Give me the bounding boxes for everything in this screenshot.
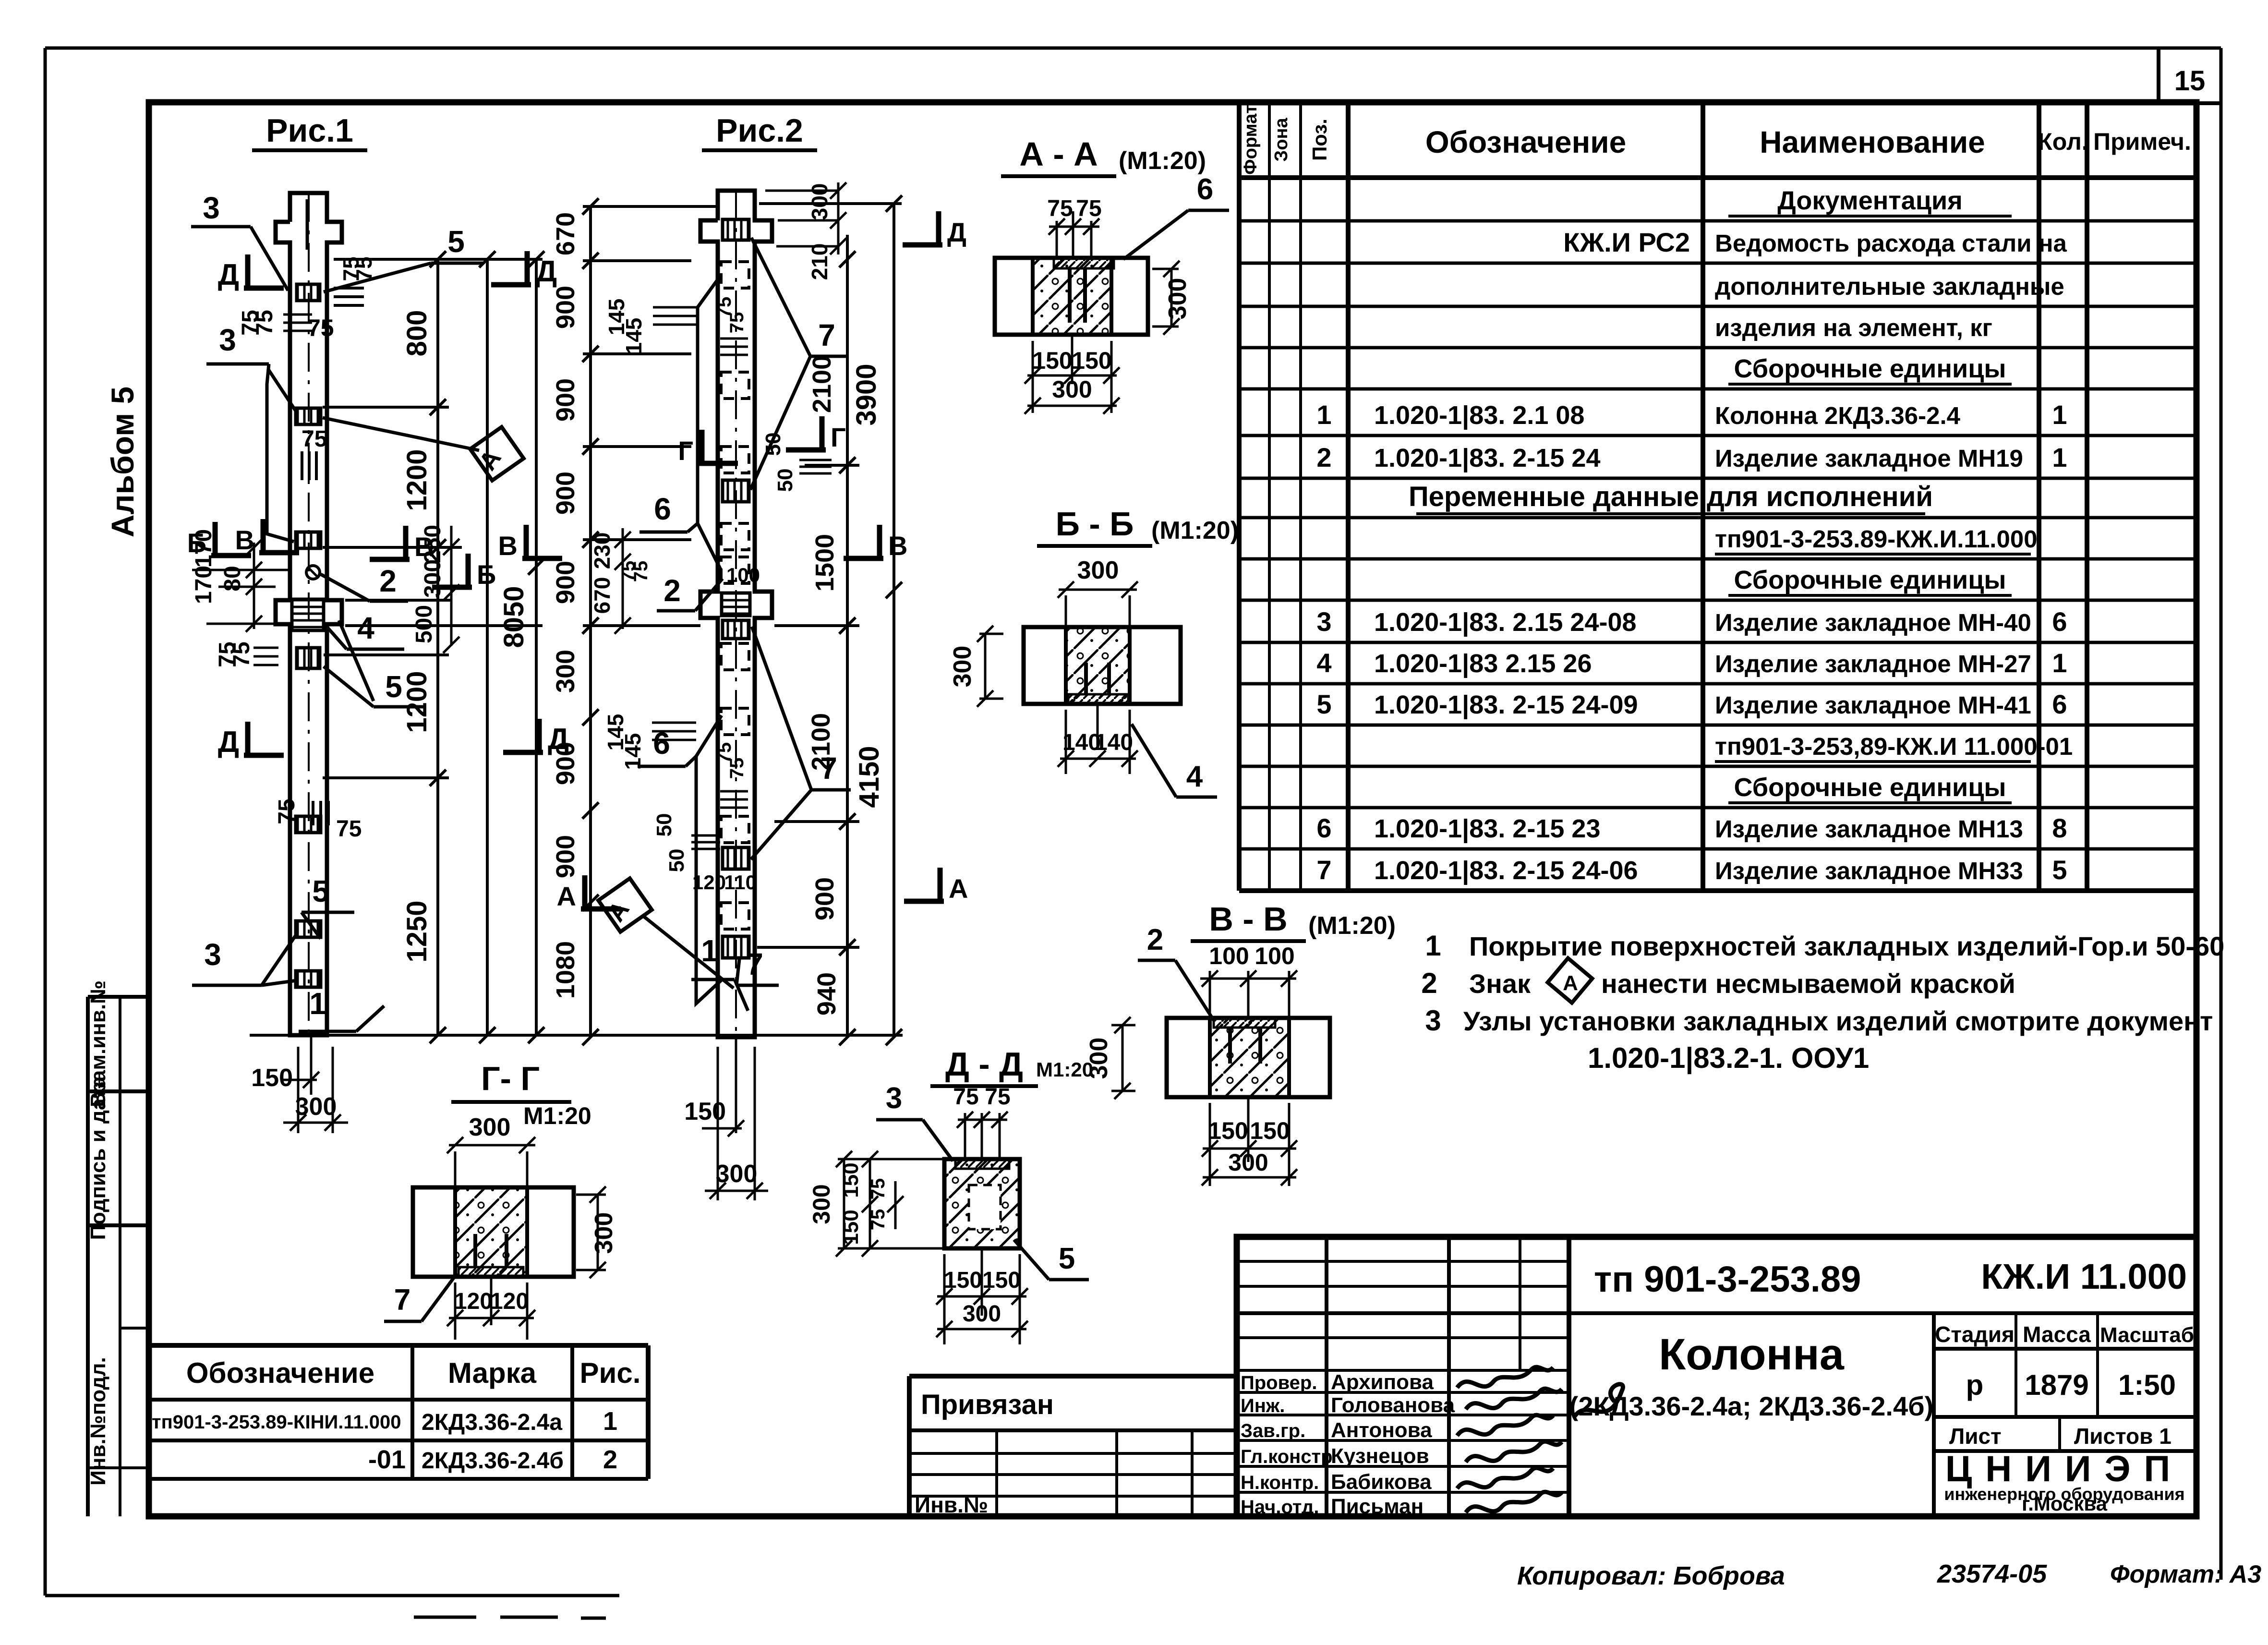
section mark A right [938,868,943,901]
svg-text:75: 75 [1076,196,1101,221]
svg-text:1500: 1500 [810,534,839,592]
svg-text:4150: 4150 [854,746,885,808]
svg-text:300: 300 [807,183,832,220]
A-sign diamond Fig.2 [598,878,651,931]
svg-text:6: 6 [2052,606,2067,637]
Fig.1 dim chain V1 [436,259,439,1035]
svg-text:Стадия: Стадия [1935,1322,2015,1347]
Fig.2 left extension lines [583,259,691,262]
svg-text:1200: 1200 [401,449,433,511]
Fig.2 plate 7 top [723,219,749,240]
svg-text:Документация: Документация [1777,186,1962,215]
svg-text:Сборочные единицы: Сборочные единицы [1734,773,2006,802]
A-A bottom dims [1032,341,1034,413]
sheet number box 15 [2157,48,2160,103]
section mark V right [403,526,409,559]
svg-text:тп901-3-253.89-КІНИ.11.000: тп901-3-253.89-КІНИ.11.000 [152,1412,401,1433]
svg-text:2КД3.36-2.4а: 2КД3.36-2.4а [422,1410,562,1435]
svg-text:1200: 1200 [401,671,433,733]
svg-text:2: 2 [664,573,681,608]
plate 3 low [296,921,321,937]
svg-text:3: 3 [204,937,221,972]
Fig.1 extension lines [334,258,543,261]
svg-text:Инж.: Инж. [1241,1395,1285,1416]
svg-text:Н.контр.: Н.контр. [1241,1472,1319,1493]
svg-text:Провер.: Провер. [1241,1372,1317,1393]
privyazan table [909,1374,1237,1379]
svg-text:3: 3 [1425,1004,1441,1037]
svg-text:Формат: Формат [1241,105,1261,175]
svg-text:1.020-1|83 2.15 26: 1.020-1|83 2.15 26 [1374,649,1592,678]
svg-text:1: 1 [701,933,718,968]
Fig.2 bottom dims [717,1047,719,1200]
svg-text:150: 150 [839,1210,863,1245]
svg-text:Переменные данные для исполнен: Переменные данные для исполнений [1409,481,1933,512]
weld marks upper [334,287,364,290]
svg-text:300: 300 [1077,556,1119,584]
svg-text:150: 150 [1250,1117,1290,1144]
svg-text:Сборочные единицы: Сборочные единицы [1734,566,2006,594]
svg-text:300: 300 [1164,278,1192,320]
svg-text:Голованова: Голованова [1331,1393,1455,1417]
svg-text:50: 50 [652,813,676,837]
Fig.1 top rebar [306,199,309,250]
svg-text:2: 2 [379,564,397,598]
section mark D right Fig.2 [936,211,941,245]
svg-text:А: А [949,873,968,904]
V-V anchor plate [1214,1018,1275,1028]
section mark V left [261,519,266,553]
svg-text:300: 300 [949,646,977,688]
svg-text:4: 4 [357,611,374,645]
svg-text:150: 150 [1032,347,1072,374]
plate 3b (MN-40) [296,532,321,548]
plate 5 mid [297,648,320,668]
svg-text:75: 75 [1047,196,1073,221]
svg-text:-01: -01 [368,1445,406,1474]
svg-text:А: А [1563,971,1578,995]
plate 3 (MN-40) [296,408,321,424]
svg-text:Г- Г: Г- Г [481,1060,540,1097]
svg-text:В: В [888,531,907,561]
svg-text:Знак: Знак [1469,968,1531,999]
svg-text:1.020-1|83. 2.15 24-08: 1.020-1|83. 2.15 24-08 [1374,608,1637,637]
svg-text:нанести несмываемой краской: нанести несмываемой краской [1601,968,2015,999]
title block frame [1237,1237,2196,1516]
svg-text:75: 75 [630,561,651,582]
svg-text:7: 7 [818,318,835,352]
section mark D lower-left [245,722,251,755]
svg-text:5: 5 [2052,855,2067,885]
svg-text:6: 6 [654,492,671,526]
svg-text:900: 900 [551,835,580,878]
scan dashes bottom-left [414,1616,476,1619]
svg-text:Подпись и дата: Подпись и дата [86,1076,110,1240]
svg-text:КЖ.И РС2: КЖ.И РС2 [1563,227,1690,257]
svg-text:23574-05: 23574-05 [1937,1560,2047,1588]
svg-text:1.020-1|83. 2-15 23: 1.020-1|83. 2-15 23 [1374,814,1600,844]
svg-text:150: 150 [982,1268,1021,1293]
svg-text:Узлы установки закладных издел: Узлы установки закладных изделий смотрит… [1463,1006,2213,1036]
svg-text:670: 670 [551,212,580,255]
svg-text:Колонна: Колонна [1659,1330,1845,1379]
svg-text:1.020-1|83. 2.1 08: 1.020-1|83. 2.1 08 [1374,401,1584,430]
svg-text:140: 140 [1095,730,1133,755]
D-D bottom dims [943,1254,946,1344]
svg-text:7: 7 [1316,855,1331,885]
plate 5 top (MN-41) [297,284,320,301]
svg-text:1: 1 [1316,399,1331,430]
svg-text:Гл.констр: Гл.констр [1241,1446,1333,1467]
section mark V right Fig.2 [877,525,882,558]
Fig.2 dashed item d [721,523,749,550]
svg-text:5: 5 [1316,689,1331,719]
svg-text:тп 901-3-253.89: тп 901-3-253.89 [1594,1259,1861,1300]
svg-text:2КД3.36-2.4б: 2КД3.36-2.4б [422,1448,564,1474]
svg-text:900: 900 [551,378,580,422]
svg-text:1.020-1|83. 2-15 24-06: 1.020-1|83. 2-15 24-06 [1374,856,1638,885]
svg-text:1.020-1|83.2-1. ООУ1: 1.020-1|83.2-1. ООУ1 [1588,1042,1869,1075]
Fig.1 dim line V2 [486,259,489,1035]
svg-text:940: 940 [812,972,841,1016]
svg-text:Листов 1: Листов 1 [2074,1424,2171,1449]
svg-text:5: 5 [447,224,465,259]
svg-text:900: 900 [551,561,580,604]
svg-text:Рис.1: Рис.1 [266,112,353,149]
svg-text:А - А: А - А [1019,135,1098,173]
svg-text:75: 75 [726,758,748,779]
svg-text:5: 5 [312,874,329,908]
diamond A sign [1548,958,1592,1003]
svg-text:6: 6 [1316,813,1331,843]
A-A right dim 300 [1170,269,1173,327]
svg-text:800: 800 [401,310,433,357]
svg-text:Привязан: Привязан [921,1389,1054,1420]
svg-text:1: 1 [603,1407,617,1436]
svg-text:145: 145 [620,733,645,770]
svg-text:1.020-1|83. 2-15 24-09: 1.020-1|83. 2-15 24-09 [1374,690,1638,720]
V-V bottom dims [1209,1103,1211,1186]
svg-text:2: 2 [1421,967,1437,999]
svg-text:1:50: 1:50 [2118,1369,2176,1401]
svg-text:2: 2 [603,1445,617,1474]
shared base line [250,1034,903,1037]
svg-text:Архипова: Архипова [1331,1370,1434,1394]
svg-text:Изделие закладное МН-27: Изделие закладное МН-27 [1715,650,2031,677]
svg-text:5: 5 [1059,1242,1075,1275]
svg-text:Изделие закладное МН33: Изделие закладное МН33 [1715,857,2023,884]
svg-text:75: 75 [868,1209,889,1231]
svg-text:Покрытие поверхностей закладны: Покрытие поверхностей закладных изделий-… [1469,931,2224,961]
section mark G left [700,430,705,463]
Fig.2 dashed item c [721,447,749,473]
svg-text:тп901-3-253.89-КЖ.И.11.000: тп901-3-253.89-КЖ.И.11.000 [1715,525,2038,553]
specification table grid [1237,102,1242,891]
svg-text:Б - Б: Б - Б [1056,505,1134,543]
Fig.2 mini chain 230/670 [622,528,624,629]
svg-text:г.Москва: г.Москва [2022,1492,2108,1515]
G-G bottom dims [454,1282,457,1340]
section mark A left [582,875,588,909]
Fig.1 left console dims [253,543,255,629]
Fig.2 right chain V5 [846,235,849,1037]
svg-text:2: 2 [1147,923,1163,956]
Fig.2 dashed item g [721,708,749,735]
svg-text:Изделие закладное МН19: Изделие закладное МН19 [1715,445,2023,472]
svg-text:900: 900 [810,877,839,920]
svg-text:100: 100 [1255,943,1294,969]
svg-text:Антонова: Антонова [1331,1418,1432,1442]
svg-text:210: 210 [807,243,832,280]
svg-text:Зав.гр.: Зав.гр. [1241,1420,1305,1441]
section mark D upper-left [245,254,251,288]
svg-text:145: 145 [621,318,646,355]
svg-text:1: 1 [2052,648,2067,678]
G-G anchor plate [458,1267,523,1277]
svg-text:В: В [498,531,518,561]
section mark V left Fig.2 [524,525,529,558]
plate 5 low [296,971,321,987]
svg-text:Рис.: Рис. [580,1357,641,1389]
svg-text:Обозначение: Обозначение [186,1357,374,1389]
svg-text:3: 3 [203,191,220,225]
svg-text:тп901-3-253,89-КЖ.И 11.000-01: тп901-3-253,89-КЖ.И 11.000-01 [1715,733,2073,760]
svg-text:Формат: А3: Формат: А3 [2110,1560,2261,1588]
Fig.2 right chain V6 totals [893,204,895,1037]
svg-text:Марка: Марка [448,1357,537,1389]
svg-text:1250: 1250 [401,900,433,962]
Fig.1 bottom dims [297,1047,300,1133]
svg-text:670: 670 [590,577,615,614]
svg-text:Ведомость расхода стали на: Ведомость расхода стали на [1715,230,2067,257]
svg-text:Копировал: Боброва: Копировал: Боброва [1517,1561,1785,1590]
svg-text:2100: 2100 [808,355,836,413]
Fig.2 dashed item [721,262,749,288]
svg-text:М1:20: М1:20 [523,1102,591,1129]
svg-text:120: 120 [454,1289,493,1314]
svg-text:р: р [1966,1369,1984,1401]
svg-text:100: 100 [726,564,760,586]
svg-text:150: 150 [251,1064,293,1092]
svg-text:Письман: Письман [1331,1495,1424,1518]
svg-text:М1:20: М1:20 [1036,1058,1093,1081]
svg-text:300: 300 [420,559,446,598]
section mark B right [466,554,471,587]
svg-text:250: 250 [420,525,446,563]
svg-text:300: 300 [295,1093,337,1121]
Fig.1 mini chain at console [450,526,453,646]
B-B anchor plate [1068,694,1128,704]
svg-text:Масштаб: Масштаб [2100,1323,2194,1347]
svg-text:75: 75 [868,1178,889,1200]
svg-text:Г: Г [831,422,846,452]
A-sign diamond Fig.1 [470,427,523,480]
svg-text:75: 75 [336,816,362,842]
svg-text:300: 300 [963,1301,1001,1327]
svg-text:Сборочные единицы: Сборочные единицы [1734,354,2006,383]
svg-text:Кол.: Кол. [2038,128,2088,155]
svg-text:Бабикова: Бабикова [1331,1470,1432,1494]
svg-text:1: 1 [309,986,326,1021]
svg-text:50: 50 [761,433,785,456]
section mark B left [213,522,218,556]
B-B left dim 300 [984,634,987,699]
svg-text:Изделие закладное МН-40: Изделие закладное МН-40 [1715,609,2031,636]
svg-text:300: 300 [551,650,580,693]
svg-text:150: 150 [1208,1117,1248,1144]
svg-text:75: 75 [229,641,254,667]
svg-text:Альбом 5: Альбом 5 [105,387,140,537]
section mark G right [820,416,825,450]
D-D left dims [843,1159,845,1248]
svg-text:900: 900 [551,472,580,515]
svg-text:900: 900 [551,286,580,329]
plate 4 (MN-27) [292,599,324,630]
svg-text:1: 1 [2052,399,2067,430]
svg-text:Д: Д [947,217,966,247]
svg-text:6: 6 [2052,689,2067,719]
Fig.2 plate below console [723,620,749,639]
svg-text:3: 3 [219,323,236,357]
svg-text:8: 8 [2052,813,2067,843]
Fig.2 plate 7 low [723,847,749,869]
Fig.2 dashed item i [721,903,749,929]
Fig.2 left chain [589,206,592,1037]
G-G right dim 300 [597,1195,599,1270]
svg-text:75: 75 [726,312,748,334]
svg-text:75: 75 [307,314,334,341]
Fig.1 total 8050 [535,259,538,1035]
drawing frame [149,102,2196,1516]
svg-text:Обозначение: Обозначение [1425,125,1626,159]
svg-text:А: А [557,881,576,911]
sidebar boxes [86,997,90,1516]
svg-text:Изделие закладное МН13: Изделие закладное МН13 [1715,815,2023,843]
Fig.1 lifting loop [306,566,320,579]
Fig.2 dashed item e (pos 2) [721,557,749,583]
svg-text:Д: Д [218,726,239,759]
svg-text:(М1:20): (М1:20) [1119,147,1206,175]
Fig.2 plate at console [722,593,750,616]
plate mid-low [296,816,321,833]
svg-text:170: 170 [191,566,217,604]
Fig.2 dashed item h [721,816,749,843]
svg-text:1: 1 [2052,442,2067,472]
svg-text:8050: 8050 [498,586,530,648]
svg-text:ЦНИИЭП: ЦНИИЭП [1945,1449,2184,1489]
svg-text:Лист: Лист [1949,1424,2002,1449]
svg-text:110: 110 [724,871,757,894]
svg-text:КЖ.И 11.000: КЖ.И 11.000 [1981,1257,2187,1296]
signatures [1457,1367,1553,1388]
svg-text:300: 300 [1228,1149,1268,1176]
Fig.1 centerline [308,193,310,1035]
svg-text:Изделие закладное МН-41: Изделие закладное МН-41 [1715,691,2031,719]
V-V left dim 300 [1122,1025,1124,1091]
svg-text:900: 900 [551,742,580,785]
Fig.2 right extension lines [759,202,902,205]
svg-text:300: 300 [808,1184,835,1224]
svg-text:300: 300 [590,1212,618,1254]
svg-text:2: 2 [1316,442,1331,472]
svg-text:15: 15 [2174,65,2206,97]
svg-text:Колонна 2КД3.36-2.4: Колонна 2КД3.36-2.4 [1715,402,1961,429]
Fig.2 plate low2 [723,936,749,958]
svg-text:75: 75 [274,798,300,824]
page border [45,47,2221,50]
svg-text:В - В: В - В [1209,900,1287,938]
svg-text:Примеч.: Примеч. [2093,128,2191,155]
Fig.2 centerline [735,191,737,1037]
D-D square [944,1159,1020,1248]
B-B bottom dims [1065,710,1067,774]
svg-text:6: 6 [1197,173,1213,206]
svg-text:Наименование: Наименование [1760,125,1985,159]
svg-text:150: 150 [839,1162,863,1197]
svg-text:Инв.№подл.: Инв.№подл. [86,1357,110,1486]
Fig.2 top micro dims [765,190,838,192]
svg-text:Д - Д: Д - Д [945,1045,1023,1083]
svg-text:4: 4 [1186,760,1203,793]
svg-text:1: 1 [1425,930,1441,962]
svg-text:100: 100 [1209,943,1249,969]
svg-text:2100: 2100 [807,713,835,771]
section mark D lower-right [537,719,542,752]
svg-text:75: 75 [985,1084,1010,1110]
svg-text:300: 300 [716,1160,758,1188]
svg-text:120: 120 [490,1289,529,1314]
svg-text:Г: Г [678,435,693,466]
svg-text:Д: Д [218,258,239,291]
Fig.2 dashed item b [721,372,749,399]
svg-text:150: 150 [1072,347,1111,374]
svg-text:Поз.: Поз. [1308,119,1331,161]
svg-text:75: 75 [302,426,327,452]
svg-text:Нач.отд.: Нач.отд. [1241,1497,1319,1518]
svg-text:1879: 1879 [2025,1369,2088,1401]
section mark D upper-right [525,251,530,285]
svg-text:150: 150 [684,1098,726,1125]
svg-text:7: 7 [394,1283,410,1317]
svg-text:230: 230 [590,532,615,569]
svg-text:(2КД3.36-2.4а; 2КД3.36-2.4б): (2КД3.36-2.4а; 2КД3.36-2.4б) [1569,1391,1934,1421]
Fig.2 plate 7 mid [723,480,749,502]
svg-text:300: 300 [1052,376,1092,403]
marks table [149,1343,648,1348]
svg-text:Зона: Зона [1271,118,1291,162]
svg-text:Масса: Масса [2023,1322,2091,1347]
svg-text:1.020-1|83. 2-15 24: 1.020-1|83. 2-15 24 [1374,444,1600,473]
svg-text:75: 75 [953,1084,978,1110]
svg-text:300: 300 [469,1113,511,1141]
Fig.2 dashed item f [721,643,749,670]
svg-text:3: 3 [886,1082,902,1115]
Fig.2 column outline [700,191,772,1037]
svg-text:150: 150 [944,1268,982,1293]
A-A anchor plate [1054,258,1114,268]
svg-text:дополнительные закладные: дополнительные закладные [1715,273,2064,300]
svg-text:75: 75 [252,310,277,335]
svg-text:50: 50 [665,849,688,872]
svg-text:1080: 1080 [551,941,580,999]
svg-text:3: 3 [1316,606,1331,637]
svg-text:5: 5 [385,669,402,704]
svg-text:Инв.№: Инв.№ [915,1492,988,1517]
svg-text:7: 7 [746,947,763,981]
svg-text:изделия на элемент, кг: изделия на элемент, кг [1715,314,1992,341]
Fig.1 column outline [276,193,342,1035]
svg-text:Рис.2: Рис.2 [716,112,803,149]
